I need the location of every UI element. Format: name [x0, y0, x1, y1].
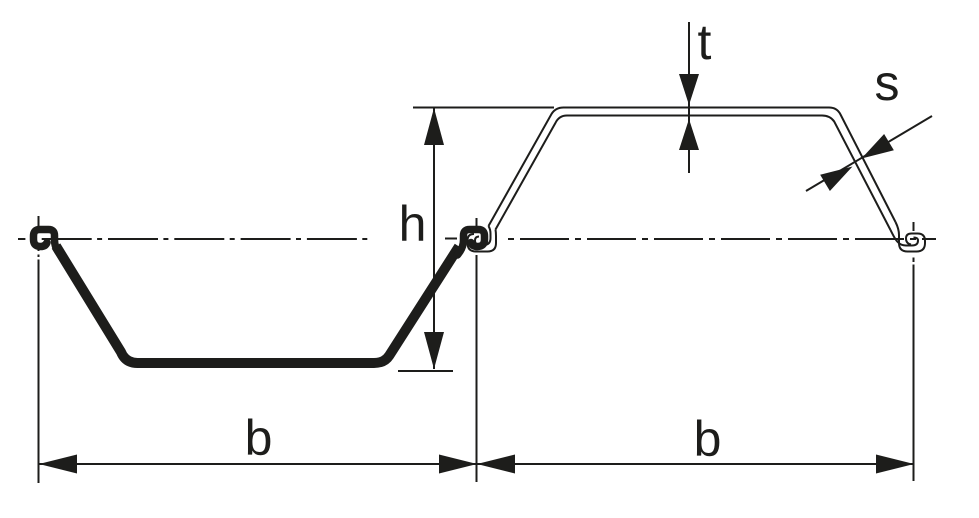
vertical dash bits below left claw [38, 246, 40, 257]
svg-text:h: h [399, 196, 427, 252]
dimension h: bottom tick line [398, 370, 453, 372]
right sheet pile inner contour [496, 116, 891, 231]
right claw of right pile, inner wall [891, 230, 919, 246]
extension line middle (b) [476, 255, 478, 482]
vertical lock centerline stub above right claw [913, 222, 915, 231]
left sheet pile U-profile (filled thick section) [56, 246, 459, 363]
vertical lock centerline stub above middle interlock [476, 218, 478, 227]
svg-text:t: t [698, 14, 712, 70]
arrowhead b mid-left [439, 455, 477, 474]
vertical lock centerline stub above left claw [38, 216, 40, 227]
arrowhead b far left [39, 455, 77, 474]
dimension h: vertical line [433, 108, 435, 369]
left claw of right pile, outer wall (middle interlock, white hook) [468, 230, 497, 252]
right claw of right pile, outer wall [896, 222, 926, 252]
arrowhead b mid-right [477, 455, 515, 474]
right claw of left pile (middle interlock, black hook) [458, 230, 485, 256]
svg-text:b: b [245, 410, 273, 466]
left claw of left pile [34, 230, 61, 256]
extension line left (b) [38, 260, 40, 484]
svg-text:s: s [875, 55, 900, 111]
horizontal centerline short segment near middle interlock [445, 238, 457, 240]
left claw of right pile, inner wall [475, 226, 491, 245]
vertical dash bits below right claw [913, 258, 915, 263]
arrowhead h up [424, 108, 444, 145]
dimension b: left dimension line [39, 463, 477, 465]
svg-text:b: b [694, 411, 722, 467]
horizontal centerline (dash-dot) right part [503, 238, 936, 240]
extension line right (b) [913, 265, 915, 482]
dimension s: oblique line [806, 116, 932, 191]
dimension h: top tick line [413, 107, 554, 109]
arrowhead s lower (points to web) [820, 158, 857, 191]
dimension t: vertical line [688, 22, 690, 173]
arrowhead t down [679, 74, 699, 105]
arrowhead s upper (points to web) [857, 134, 894, 167]
arrowhead t up [679, 119, 699, 150]
dimension b: right dimension line [477, 463, 914, 465]
arrowhead b far right [876, 455, 914, 474]
right sheet pile outer contour (outline profile) [489, 108, 896, 227]
horizontal centerline (dash-dot) left part [18, 238, 372, 240]
arrowhead h down [424, 332, 444, 369]
